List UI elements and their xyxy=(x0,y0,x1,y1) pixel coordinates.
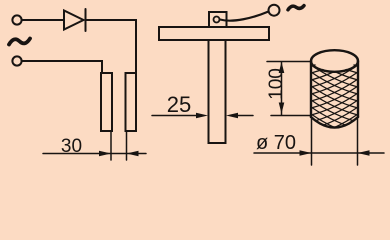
dim 100 top extension xyxy=(267,61,311,63)
arrowhead 25 left xyxy=(196,113,208,119)
svg-text:30: 30 xyxy=(61,136,82,157)
T-stem xyxy=(209,40,226,143)
diode D1 xyxy=(64,11,84,30)
dimension line 25 right xyxy=(234,115,253,117)
dim 100 vertical line xyxy=(281,62,283,115)
extension line left (30 dim) xyxy=(110,132,112,160)
cylinder top ellipse xyxy=(311,50,358,72)
electrode plate right xyxy=(126,73,137,131)
arrowhead ø70 left xyxy=(300,150,312,156)
extension line right (ø70) xyxy=(357,118,359,165)
terminal T3 xyxy=(269,5,280,16)
arrowhead 30 right xyxy=(127,151,139,157)
terminal T2 (lower left) xyxy=(12,56,21,65)
arrowhead 30 left xyxy=(99,151,111,157)
wire diode to right, down to right plate xyxy=(86,20,137,73)
T-bar (middle electrode horizontal bar) xyxy=(159,27,269,40)
svg-text:100: 100 xyxy=(266,68,287,100)
wire T1 to diode xyxy=(22,19,64,21)
cylinder right side xyxy=(357,61,359,117)
arrowhead ø70 right xyxy=(358,150,370,156)
clamp screw xyxy=(214,17,220,23)
svg-text:ø 70: ø 70 xyxy=(256,132,296,154)
cylinder mesh hatch (coil turns) xyxy=(311,44,358,143)
extension line left (ø70) xyxy=(311,118,313,165)
AC symbol ~ (left) xyxy=(9,39,30,45)
cylinder bottom arc xyxy=(311,117,358,128)
arrowhead 100 up xyxy=(279,62,285,73)
dimension line ø70 xyxy=(254,152,384,154)
dimension line 30 xyxy=(43,153,146,155)
electrode plate left xyxy=(101,73,112,131)
dim 100 bottom extension xyxy=(271,115,310,117)
terminal T1 (upper left) xyxy=(12,15,21,24)
arrowhead 25 right xyxy=(226,113,238,119)
svg-text:25: 25 xyxy=(167,92,191,117)
extension line right (30 dim) xyxy=(126,132,128,160)
diode cathode bar xyxy=(85,9,87,31)
dimension line 25 left xyxy=(152,115,200,117)
arrowhead 100 down xyxy=(279,103,285,114)
AC symbol ~ (right) xyxy=(288,6,304,10)
cylinder left side xyxy=(310,61,312,117)
clamp block xyxy=(209,12,227,27)
wire T2 right, down to left plate xyxy=(22,61,102,73)
lead wire to terminal xyxy=(220,12,269,21)
